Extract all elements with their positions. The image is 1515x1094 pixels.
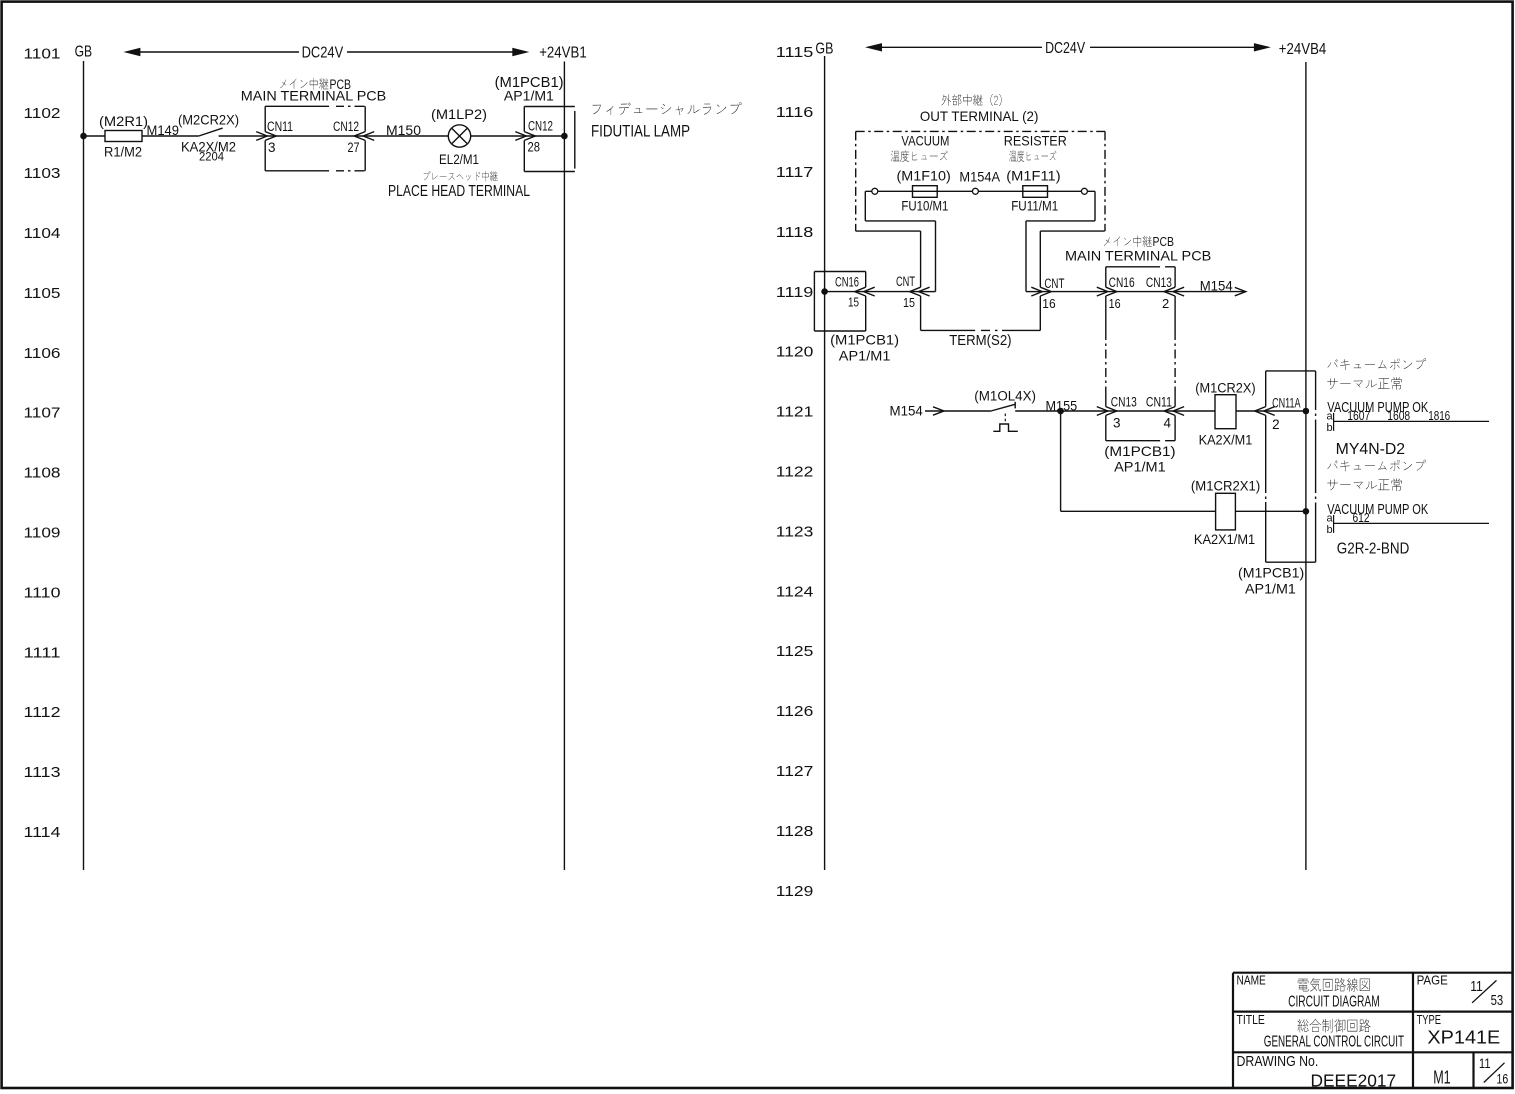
svg-text:+24VB4: +24VB4	[1279, 41, 1327, 58]
svg-text:TERM(S2): TERM(S2)	[949, 333, 1011, 349]
svg-text:CN13: CN13	[1146, 275, 1172, 290]
svg-text:R1/M2: R1/M2	[104, 144, 142, 160]
svg-text:(M1CR2X): (M1CR2X)	[1195, 381, 1255, 396]
connector exit arrow CN12	[363, 132, 374, 141]
svg-text:AP1/M1: AP1/M1	[1114, 458, 1166, 474]
connector entry arrow CN11A/2	[1264, 407, 1275, 416]
svg-text:53: 53	[1491, 992, 1504, 1009]
svg-text:VACUUM PUMP OK: VACUUM PUMP OK	[1327, 400, 1428, 416]
svg-text:b: b	[1327, 524, 1333, 536]
lamp EL2/M1 (M1LP2)	[431, 106, 487, 167]
svg-text:DC24V: DC24V	[302, 45, 344, 62]
bus wire: GB rail (right)	[824, 56, 826, 870]
svg-text:1103: 1103	[24, 166, 61, 182]
svg-text:CNT: CNT	[896, 274, 915, 289]
node: junction on +24VB1 rail	[561, 133, 568, 140]
svg-text:PLACE HEAD TERMINAL: PLACE HEAD TERMINAL	[388, 183, 530, 200]
svg-text:16: 16	[1109, 296, 1121, 311]
svg-text:MAIN TERMINAL PCB: MAIN TERMINAL PCB	[241, 87, 386, 103]
svg-text:(M1CR2X1): (M1CR2X1)	[1191, 478, 1260, 493]
svg-text:1112: 1112	[24, 705, 61, 721]
wire M154 to contact	[944, 410, 991, 412]
signal M154 in arrow	[890, 403, 945, 419]
svg-text:1120: 1120	[776, 345, 814, 361]
svg-text:(M1OL4X): (M1OL4X)	[974, 388, 1036, 403]
title block sheet M1 11/16	[1433, 1055, 1508, 1088]
wire CN12 to +24VB1 rail	[524, 135, 564, 137]
svg-text:DC24V: DC24V	[1045, 40, 1086, 57]
svg-text:a: a	[1327, 513, 1334, 525]
wire row 1121 inside PCB	[1106, 410, 1175, 412]
pins CN16/16 CN13/2	[1109, 275, 1172, 311]
svg-text:1101: 1101	[24, 46, 61, 62]
wire relay to CN11A	[1236, 410, 1266, 412]
bus wire: GB rail (left)	[83, 61, 85, 870]
svg-text:1118: 1118	[776, 225, 814, 241]
svg-text:MY4N-D2: MY4N-D2	[1336, 441, 1405, 458]
title block TYPE XP141E	[1417, 1012, 1501, 1048]
svg-text:(M1F11): (M1F11)	[1006, 168, 1060, 184]
connector entry arrow CN11	[256, 132, 267, 141]
svg-text:RESISTER: RESISTER	[1004, 133, 1067, 149]
svg-text:11: 11	[1479, 1055, 1491, 1071]
title block DRAWING No. DEEE2017	[1237, 1053, 1397, 1090]
connector exit arrow CN11/4	[1173, 407, 1184, 416]
svg-text:CN12: CN12	[528, 118, 553, 133]
svg-text:1124: 1124	[776, 584, 814, 600]
connector box AP1/M1 (M1PCB1) pin CN16/15	[814, 272, 899, 364]
MAIN TERMINAL PCB box (right)	[1065, 234, 1211, 441]
thermal contact (M1OL4X) with pulse symbol	[974, 388, 1036, 431]
svg-text:(M1PCB1): (M1PCB1)	[1238, 565, 1304, 581]
wire CN11 to relay coil	[1175, 410, 1215, 412]
label vacuum pump thermal OK (lower)	[1327, 460, 1428, 518]
wire M150	[365, 122, 448, 138]
svg-text:(M2R1): (M2R1)	[99, 113, 148, 129]
svg-text:1816: 1816	[1428, 409, 1450, 423]
fuse FU10/M1 (M1F10)	[901, 186, 948, 214]
svg-text:(M2CR2X): (M2CR2X)	[178, 112, 239, 128]
svg-text:1129: 1129	[776, 884, 814, 900]
svg-text:AP1/M1: AP1/M1	[839, 347, 891, 363]
svg-text:612: 612	[1353, 511, 1370, 525]
svg-text:VACUUM PUMP OK: VACUUM PUMP OK	[1327, 502, 1428, 518]
wire fuse row	[865, 190, 1095, 192]
pin CN12 / 27	[333, 119, 360, 155]
rung numbers 1101-1114 (left ladder)	[24, 46, 61, 841]
svg-text:VACUUM: VACUUM	[901, 133, 949, 149]
pins CN13/3 CN11/4	[1111, 395, 1172, 431]
wire to MAIN TERMINAL PCB CN11	[219, 135, 266, 137]
svg-text:AP1/M1: AP1/M1	[1245, 580, 1296, 596]
svg-text:CN12: CN12	[333, 119, 359, 134]
svg-text:NAME: NAME	[1237, 972, 1267, 987]
svg-text:GB: GB	[75, 44, 93, 61]
svg-text:M150: M150	[386, 122, 421, 138]
svg-text:1115: 1115	[776, 45, 814, 61]
svg-text:28: 28	[528, 140, 541, 155]
DC24V supply span arrow (left)	[123, 45, 529, 62]
svg-text:+24VB1: +24VB1	[539, 45, 587, 62]
connector entry arrow CN13/3	[1097, 407, 1108, 416]
svg-text:CN16: CN16	[1109, 275, 1135, 290]
svg-text:1102: 1102	[24, 106, 61, 122]
relay coil KA2X1/M1 (M1CR2X1)	[1191, 478, 1260, 547]
svg-text:27: 27	[348, 140, 360, 155]
svg-text:16: 16	[1497, 1071, 1509, 1087]
title block TITLE: GENERAL CONTROL CIRCUIT	[1237, 1012, 1405, 1050]
svg-text:1123: 1123	[776, 524, 814, 540]
wire CN11A to +24VB4 rail	[1266, 410, 1306, 412]
svg-text:a: a	[1327, 411, 1334, 423]
svg-text:M154: M154	[1200, 278, 1233, 294]
svg-text:1109: 1109	[24, 526, 61, 542]
svg-text:FIDUTIAL LAMP: FIDUTIAL LAMP	[591, 123, 690, 141]
svg-text:1119: 1119	[776, 285, 814, 301]
label FIDUTIAL LAMP	[591, 102, 742, 140]
wire CNT to MAIN TERMINAL PCB CN16	[1040, 291, 1106, 293]
svg-text:1106: 1106	[24, 346, 61, 362]
svg-text:KA2X/M1: KA2X/M1	[1199, 431, 1253, 447]
svg-text:1107: 1107	[24, 406, 61, 422]
node: junction on GB rail row 1119	[821, 288, 828, 295]
label RESISTER fuse	[1004, 133, 1067, 162]
svg-text:2: 2	[1272, 417, 1280, 432]
svg-text:M154: M154	[890, 403, 923, 419]
title block NAME: CIRCUIT DIAGRAM	[1237, 972, 1380, 1010]
svg-text:1126: 1126	[776, 704, 814, 720]
label PLACE HEAD TERMINAL	[388, 171, 530, 200]
svg-text:16: 16	[1042, 296, 1055, 311]
rung numbers 1115-1129 (right ladder)	[776, 45, 814, 900]
label OUT TERMINAL (2)	[920, 94, 1039, 124]
svg-text:FU11/M1: FU11/M1	[1011, 199, 1058, 214]
svg-text:CN16: CN16	[835, 274, 859, 289]
relay coil KA2X/M1 (M1CR2X)	[1195, 381, 1255, 448]
svg-text:15: 15	[903, 295, 915, 310]
connector box AP1/M1 (M1PCB1) with pin CN12/28	[495, 75, 575, 172]
svg-text:1128: 1128	[776, 824, 814, 840]
node: junction M155	[1057, 408, 1064, 415]
terminal circle left	[872, 188, 878, 194]
svg-text:M154A: M154A	[959, 168, 1000, 184]
wire lamp to AP1/M1 CN12	[471, 135, 525, 137]
svg-text:1608: 1608	[1387, 409, 1410, 423]
relay contact output a/b wire 612	[1327, 511, 1490, 536]
contact KA2X/M2 (M2CR2X) 2204	[178, 112, 239, 164]
connector entry arrow CN16	[864, 287, 875, 296]
wire inside MAIN TERMINAL PCB	[265, 135, 365, 137]
wire relay KA2X1 to +24VB4 rail	[1235, 510, 1306, 512]
svg-text:(M1F10): (M1F10)	[897, 168, 951, 184]
svg-text:3: 3	[1113, 416, 1121, 431]
svg-text:3: 3	[268, 140, 276, 155]
label VACUUM fuse	[891, 133, 950, 162]
svg-text:M149: M149	[147, 122, 180, 138]
svg-text:GENERAL CONTROL CIRCUIT: GENERAL CONTROL CIRCUIT	[1264, 1034, 1404, 1051]
label vacuum pump thermal OK (upper)	[1327, 358, 1428, 416]
svg-text:TYPE: TYPE	[1417, 1012, 1442, 1027]
svg-text:1114: 1114	[24, 825, 61, 841]
connector box (M1PCB1) CN11A	[1238, 371, 1316, 596]
svg-text:CN13: CN13	[1111, 395, 1137, 410]
fuse FU11/M1 (M1F11)	[1011, 186, 1058, 214]
svg-text:(M1PCB1): (M1PCB1)	[1104, 443, 1175, 459]
svg-text:1113: 1113	[24, 765, 61, 781]
svg-text:KA2X1/M1: KA2X1/M1	[1194, 531, 1255, 547]
svg-text:EL2/M1: EL2/M1	[439, 152, 479, 167]
bus wire: +24VB4 rail	[1305, 62, 1307, 870]
svg-text:G2R-2-BND: G2R-2-BND	[1337, 541, 1410, 558]
relay contact output a/b wires 1607 1608 1816	[1327, 409, 1490, 434]
node: junction on GB rail row 1102	[80, 133, 87, 140]
pin CN11 / 3	[267, 119, 293, 155]
connector exit arrow CN13/2	[1173, 287, 1184, 296]
wire row 1119 inside PCB	[1106, 291, 1175, 293]
connector entry arrow CN16/16	[1097, 287, 1108, 296]
title block PAGE 11/53	[1417, 972, 1504, 1009]
svg-text:(M1PCB1): (M1PCB1)	[830, 332, 899, 348]
svg-text:15: 15	[848, 295, 859, 310]
svg-text:1105: 1105	[24, 286, 61, 302]
svg-text:CN11: CN11	[1146, 395, 1172, 410]
svg-text:OUT TERMINAL (2): OUT TERMINAL (2)	[920, 108, 1039, 124]
svg-text:11: 11	[1470, 978, 1483, 995]
connector entry arrow CNT/15	[896, 274, 930, 310]
svg-text:1607: 1607	[1347, 409, 1370, 423]
MAIN TERMINAL PCB box (left)	[241, 77, 386, 171]
bus wire: +24VB1 rail	[563, 62, 565, 871]
TERM(S2) harness outline	[856, 191, 1105, 330]
svg-text:CN11A: CN11A	[1272, 396, 1301, 411]
svg-text:1116: 1116	[776, 105, 814, 121]
wire row 1119 GB to TERM(S2)	[825, 291, 921, 293]
svg-text:1127: 1127	[776, 764, 814, 780]
svg-text:1104: 1104	[24, 226, 61, 242]
label (M1PCB1) AP1/M1 below PCB	[1104, 443, 1175, 474]
svg-text:1122: 1122	[776, 465, 814, 481]
wire row 1123 to relay coil	[1061, 510, 1216, 512]
svg-text:DEEE2017: DEEE2017	[1311, 1071, 1397, 1091]
svg-text:MAIN TERMINAL PCB: MAIN TERMINAL PCB	[1065, 248, 1211, 264]
wire stub CNT 16	[1026, 291, 1040, 293]
node: junction on +24VB4 rail row 1123	[1303, 508, 1310, 515]
node: junction on +24VB4 rail row 1121	[1303, 408, 1310, 415]
svg-text:2: 2	[1162, 296, 1169, 311]
svg-text:M1: M1	[1433, 1068, 1451, 1088]
svg-text:1108: 1108	[24, 466, 61, 482]
wire stub CNT 15	[921, 291, 936, 293]
wire M149	[142, 122, 199, 138]
svg-text:CNT: CNT	[1044, 276, 1064, 291]
svg-text:b: b	[1327, 422, 1333, 434]
svg-text:FU10/M1: FU10/M1	[901, 199, 948, 214]
signal M154 out arrow	[1175, 278, 1246, 296]
svg-text:GB: GB	[815, 41, 833, 58]
svg-text:TITLE: TITLE	[1237, 1012, 1266, 1027]
svg-text:PAGE: PAGE	[1417, 972, 1448, 987]
svg-text:1125: 1125	[776, 644, 814, 660]
svg-text:DRAWING No.: DRAWING No.	[1237, 1053, 1319, 1070]
resistor R1/M2 (M2R1)	[99, 113, 148, 160]
wire M155	[1015, 397, 1106, 413]
DC24V supply span arrow (right)	[865, 40, 1271, 57]
svg-text:AP1/M1: AP1/M1	[504, 88, 554, 104]
svg-text:1117: 1117	[776, 165, 814, 181]
terminal circle right	[1081, 188, 1087, 194]
svg-text:1110: 1110	[24, 585, 61, 601]
svg-text:CIRCUIT DIAGRAM: CIRCUIT DIAGRAM	[1288, 994, 1380, 1011]
connector exit arrow CNT/16	[1031, 276, 1064, 311]
svg-text:(M1LP2): (M1LP2)	[431, 106, 487, 122]
svg-text:2204: 2204	[199, 150, 224, 164]
svg-text:1121: 1121	[776, 405, 814, 421]
connector entry arrow CN12/28	[515, 132, 526, 141]
wire drop M155 to relay KA2X1	[1060, 411, 1062, 511]
terminal circle middle M154A	[972, 188, 978, 194]
svg-text:1111: 1111	[24, 645, 61, 661]
title block frame	[1233, 973, 1513, 1088]
OUT TERMINAL (2) enclosure (dash-dot)	[856, 131, 1105, 231]
svg-text:CN11: CN11	[267, 119, 293, 134]
svg-text:4: 4	[1164, 416, 1172, 431]
svg-text:XP141E: XP141E	[1427, 1027, 1500, 1048]
wire GB to resistor R1/M2	[84, 135, 106, 137]
fuse designators (M1F10) M154A (M1F11)	[897, 168, 1061, 185]
